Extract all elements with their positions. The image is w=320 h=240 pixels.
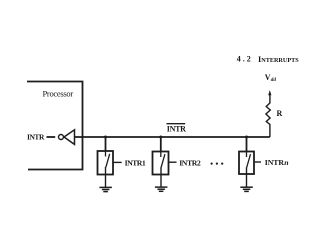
svg-text:Processor: Processor bbox=[43, 89, 74, 99]
svg-text:INTR: INTR bbox=[27, 133, 45, 142]
svg-text:INTRn: INTRn bbox=[265, 158, 289, 167]
svg-text:INTR1: INTR1 bbox=[125, 159, 146, 168]
svg-text:4.2: 4.2 bbox=[237, 55, 253, 64]
svg-text:INTR2: INTR2 bbox=[179, 159, 201, 168]
svg-text:R: R bbox=[277, 109, 283, 118]
svg-text:INTR: INTR bbox=[167, 124, 186, 133]
svg-text:Vdd: Vdd bbox=[265, 73, 277, 83]
svg-text:INTERRUPTS: INTERRUPTS bbox=[258, 55, 299, 64]
